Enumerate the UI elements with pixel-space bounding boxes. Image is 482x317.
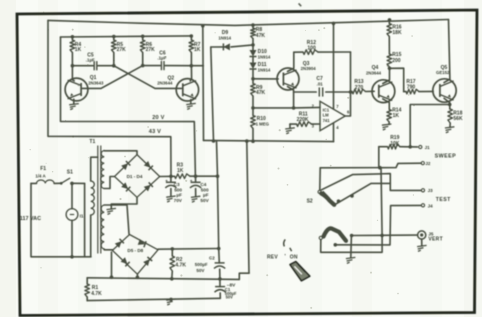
wire left vertex drop — [110, 252, 114, 279]
wire R19 feed from S2 rail — [378, 147, 380, 168]
node 43V label — [149, 129, 161, 135]
wire negative supply line — [204, 139, 334, 143]
ground C3 — [166, 196, 176, 202]
switch S2 wafer 1 — [318, 190, 334, 205]
svg-text:REV: REV — [267, 254, 278, 260]
bridge rectifier D5-D8 — [112, 235, 158, 275]
capacitor C4 — [190, 176, 210, 203]
wire R12 output drop — [350, 52, 352, 92]
svg-text:1K: 1K — [393, 113, 400, 119]
bridge rectifier D1-D4 — [115, 155, 160, 198]
resistor R11 — [290, 111, 320, 126]
node annotation tick marks — [284, 239, 292, 251]
wire S2 rail1 — [320, 163, 421, 169]
capacitor C7 — [294, 76, 353, 96]
svg-text:.1µF: .1µF — [86, 58, 95, 63]
node S2b contact 1 — [350, 234, 354, 238]
svg-text:2N3644: 2N3644 — [157, 81, 173, 86]
switch S2 wafer 2 — [319, 228, 346, 240]
wire Q5 emitter to R19 junction — [410, 105, 450, 147]
svg-text:220K: 220K — [297, 117, 309, 123]
svg-text:J1: J1 — [425, 145, 431, 150]
resistor R19 — [379, 135, 418, 149]
svg-text:S1: S1 — [67, 170, 73, 176]
diode D9 — [211, 30, 253, 51]
node -8V label — [227, 282, 236, 288]
wire D1-D4 ground lead — [111, 197, 137, 209]
svg-text:1/4 A: 1/4 A — [35, 173, 46, 178]
svg-text:D1 - D4: D1 - D4 — [127, 174, 143, 179]
wire S2a throw line — [335, 183, 391, 204]
pin 4 label — [336, 125, 339, 130]
capacitor C5 — [71, 53, 116, 71]
resistor R7 — [189, 36, 201, 66]
resistor R12 — [294, 40, 351, 54]
transistor Q2 — [157, 66, 198, 104]
wire S2 supply drop — [247, 141, 249, 273]
wire 43V feed (left box edge) — [48, 20, 171, 176]
svg-text:50V: 50V — [200, 198, 209, 203]
ground R14 — [382, 124, 392, 130]
wire -8V rail — [87, 277, 239, 281]
wire op-amp output — [345, 92, 350, 116]
jack J1 — [419, 145, 430, 150]
wire multivibrator top rail — [61, 34, 194, 38]
wire S2b to J4 — [335, 205, 421, 245]
svg-text:J3: J3 — [428, 188, 434, 193]
svg-text:C4: C4 — [200, 182, 206, 187]
svg-text:1N914: 1N914 — [258, 54, 271, 59]
wire -8V to S2 drop link — [239, 273, 249, 279]
resistor R14 — [387, 107, 402, 124]
svg-text:VERT: VERT — [428, 237, 443, 243]
wire Q3 base — [253, 78, 278, 80]
transistor Q1 — [65, 66, 104, 104]
transformer T1 secondary lower — [101, 205, 129, 250]
wire Q5 emitter — [444, 98, 452, 109]
svg-text:47K: 47K — [256, 90, 266, 96]
wire line after S1 — [70, 182, 84, 186]
svg-text:1 MEG: 1 MEG — [256, 122, 270, 127]
svg-text:790: 790 — [407, 85, 416, 91]
wire S2 wafer1 feed — [319, 168, 321, 190]
switch S1 — [60, 170, 73, 185]
wire top rail drop A — [202, 26, 205, 141]
svg-text:–8V: –8V — [227, 282, 236, 288]
svg-text:70V: 70V — [174, 198, 183, 203]
wire Q3 collector riser — [288, 52, 294, 71]
svg-text:J2: J2 — [425, 161, 431, 166]
svg-text:2N3643: 2N3643 — [88, 80, 104, 85]
svg-text:S2: S2 — [307, 199, 313, 205]
svg-text:200: 200 — [392, 58, 401, 64]
svg-text:C2: C2 — [209, 255, 215, 260]
svg-text:50V: 50V — [226, 294, 234, 299]
wire 20V rail — [61, 37, 196, 176]
capacitor C3 — [165, 176, 183, 203]
transformer T1 primary — [85, 157, 98, 257]
transistor Q5 — [433, 65, 456, 102]
resistor R13 — [351, 79, 375, 94]
resistor R8 — [251, 25, 266, 47]
wire cross-coupling C6 to Q1 base — [82, 66, 143, 89]
svg-text:47K: 47K — [256, 33, 266, 39]
svg-text:4.7K: 4.7K — [175, 263, 186, 269]
svg-text:ON: ON — [290, 254, 298, 260]
capacitor C2 — [195, 249, 225, 279]
wire D5-D8 bottom stub — [136, 274, 140, 279]
svg-text:+: + — [165, 178, 168, 183]
resistor R5 — [112, 37, 127, 66]
fuse F1 — [31, 166, 60, 183]
resistor R9 — [251, 77, 266, 108]
resistor R15 — [387, 52, 401, 68]
pin 6 label — [347, 110, 350, 115]
wire top supply rail — [48, 18, 449, 28]
transistor Q4 — [366, 65, 395, 102]
diode D11 — [250, 62, 271, 79]
capacitor C6 — [141, 51, 203, 71]
svg-text:J4: J4 — [428, 203, 434, 208]
svg-text:T1: T1 — [89, 139, 95, 145]
svg-text:1N914: 1N914 — [218, 35, 231, 40]
ground R11 — [285, 128, 295, 134]
resistor R10 — [251, 106, 270, 141]
svg-text:18K: 18K — [392, 30, 402, 36]
resistor R2 — [170, 249, 186, 279]
svg-text:50V: 50V — [196, 268, 204, 273]
svg-text:43 V: 43 V — [149, 129, 161, 135]
svg-text:4.7K: 4.7K — [91, 291, 102, 297]
node SWEEP label — [435, 153, 456, 159]
wire J5 ground stem — [421, 239, 423, 246]
jack J4 — [421, 203, 433, 208]
svg-text:C3: C3 — [174, 182, 180, 187]
transformer T1 core — [89, 139, 100, 253]
resistor R1 — [85, 278, 102, 301]
svg-text:270: 270 — [355, 85, 364, 91]
resistor R6 — [140, 36, 155, 65]
svg-text:10K: 10K — [390, 141, 400, 147]
jack J3 — [421, 188, 433, 193]
ground C4 — [191, 196, 201, 202]
svg-text:741: 741 — [323, 118, 331, 123]
source 117VAC loop — [20, 183, 91, 258]
pin 2 label — [312, 103, 315, 108]
node TEST label — [436, 197, 451, 203]
ground J5 — [417, 245, 427, 251]
wire J5 line — [352, 234, 418, 238]
wire bottom rail — [87, 298, 220, 302]
wire bridge output rail upper — [160, 175, 175, 179]
svg-text:GE152: GE152 — [436, 70, 450, 75]
wire S2b ground bus — [350, 236, 353, 258]
svg-text:D5 - D8: D5 - D8 — [127, 248, 143, 253]
svg-text:2N3644: 2N3644 — [366, 70, 382, 75]
svg-text:I1: I1 — [80, 213, 84, 218]
resistor R18 — [448, 109, 463, 127]
svg-text:+: + — [190, 178, 193, 183]
wire Q4 collector riser — [383, 67, 392, 84]
svg-text:20 V: 20 V — [152, 115, 164, 121]
transformer T1 secondary upper — [101, 151, 137, 189]
resistor R17 — [404, 79, 434, 94]
node S2b contact 2 — [334, 243, 338, 247]
svg-text:.01: .01 — [317, 82, 324, 87]
wire op-amp pin2 input — [253, 106, 320, 109]
node S2a contact 2 — [350, 194, 354, 198]
svg-text:100: 100 — [307, 46, 316, 52]
wire Q5 collector riser — [444, 20, 450, 83]
ground bridge D1-D4 — [107, 208, 117, 214]
jack J2 — [421, 161, 431, 166]
svg-text:SWEEP: SWEEP — [435, 153, 456, 159]
svg-text:2N3904: 2N3904 — [301, 66, 317, 71]
node marker arrow — [290, 262, 310, 281]
lamp I1 — [66, 183, 84, 256]
svg-text:1K: 1K — [194, 47, 201, 53]
ground S2 bus — [346, 257, 356, 263]
wire R11 ground stem — [289, 124, 291, 128]
node 20V label — [152, 115, 164, 121]
svg-text:µF: µF — [203, 193, 209, 198]
resistor R16 — [387, 20, 402, 54]
op-amp IC1 — [320, 101, 345, 130]
pin 7 label — [336, 104, 339, 109]
wire pin7 riser — [333, 23, 335, 109]
wire S2a pivot line rail2 — [322, 174, 422, 191]
node REV ON annotation — [267, 254, 298, 260]
capacitor C1 — [215, 279, 237, 300]
wire S2b pivot loop — [321, 168, 382, 253]
wire Q4 emitter — [383, 99, 390, 110]
svg-text:27K: 27K — [117, 47, 127, 53]
wire D9 anode drop — [211, 47, 214, 141]
ground Q1 emitter — [69, 104, 79, 110]
switch S2 label — [307, 199, 313, 205]
pin 3 label — [312, 124, 315, 129]
svg-text:TEST: TEST — [436, 197, 451, 203]
svg-text:µF: µF — [176, 193, 182, 198]
wire cross-coupling C5 to Q2 base — [114, 66, 182, 89]
svg-text:1K: 1K — [177, 168, 184, 174]
diode D10 — [250, 45, 271, 62]
svg-text:27K: 27K — [146, 47, 156, 53]
svg-text:117 VAC: 117 VAC — [20, 216, 41, 222]
resistor R4 — [70, 37, 81, 66]
node S2a contact 1 — [337, 199, 341, 203]
resistor R3 — [175, 163, 220, 179]
svg-text:500µF: 500µF — [195, 262, 208, 267]
wire drop to C2 column — [217, 141, 219, 249]
svg-text:56K: 56K — [453, 116, 463, 122]
ground R18 — [445, 127, 455, 133]
svg-text:.1µF: .1µF — [157, 56, 166, 61]
transistor Q3 — [277, 61, 316, 90]
svg-text:F1: F1 — [40, 166, 46, 172]
svg-text:1K: 1K — [75, 47, 82, 53]
wire bridge output rail lower — [158, 247, 221, 251]
wire pin4 drop — [333, 123, 335, 142]
wire R15 to R17 jog — [390, 68, 404, 91]
svg-text:1N914: 1N914 — [258, 67, 271, 72]
wire Q3 emitter — [288, 87, 296, 110]
jack J5 — [418, 231, 443, 243]
ground bottom rail — [166, 299, 176, 305]
ground Q2 emitter — [186, 103, 196, 109]
